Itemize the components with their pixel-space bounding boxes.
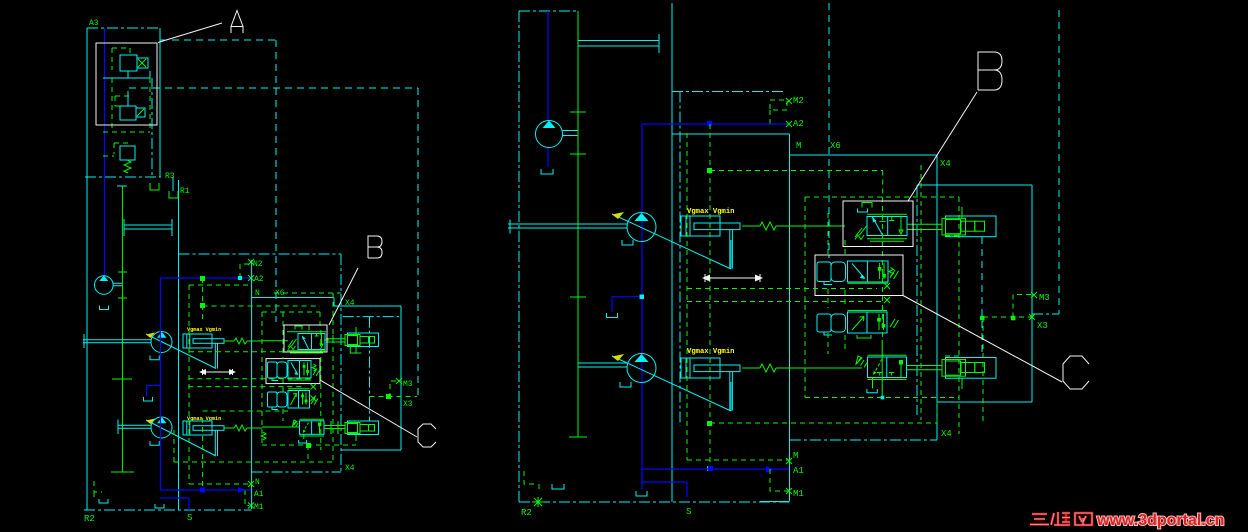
valve block bottom dashdot xyxy=(252,471,341,473)
pump P2r swash arrow xyxy=(612,356,731,411)
wire blue drain mid xyxy=(612,297,642,312)
wire dashed green between rows xyxy=(188,312,310,421)
letter C left xyxy=(418,424,436,447)
svg-text:X3: X3 xyxy=(1037,321,1048,331)
wire block bottom left xyxy=(760,501,790,503)
svg-text:A1: A1 xyxy=(254,490,264,499)
tank bottom left green xyxy=(94,481,102,499)
wire dashdot inner vertical xyxy=(151,78,153,177)
callout box B right xyxy=(843,201,913,247)
wire R3 dashdot horizontal xyxy=(85,176,161,178)
svg-text:M1: M1 xyxy=(254,503,264,512)
wire valve row1 line xyxy=(262,339,345,342)
wire green dashed row links xyxy=(687,213,959,356)
svg-text:A1: A1 xyxy=(793,466,804,476)
tank below pump P1r xyxy=(622,240,633,245)
piston actuator P2 xyxy=(183,421,212,435)
wire below pump P3r xyxy=(547,148,549,167)
valve R1 pilot xyxy=(862,203,872,208)
valve R1 spring xyxy=(855,226,867,240)
valve V6 xyxy=(268,392,278,407)
svg-text:Vgmax Vgmin: Vgmax Vgmin xyxy=(687,348,734,356)
wire dashdot X3 vertical xyxy=(343,317,399,421)
tank below pump P1 xyxy=(150,356,159,360)
big dashed box top xyxy=(160,39,276,41)
valve block step xyxy=(334,298,401,451)
pump P1 swash arrow xyxy=(146,334,218,369)
valve V3 pressure reducing xyxy=(103,143,130,156)
actuator A1 top xyxy=(348,333,379,347)
svg-text:X6: X6 xyxy=(830,141,841,151)
wire blue A1 line xyxy=(642,468,789,470)
port X marks V5 xyxy=(311,384,317,401)
wire dashdot inner right vertical xyxy=(916,185,918,415)
RIGHT-SCHEMATIC xyxy=(508,3,1059,518)
wire top edge xyxy=(87,27,160,29)
svg-text:X3: X3 xyxy=(403,400,413,409)
pump P1r circle xyxy=(627,213,656,242)
shaft pump P1 xyxy=(83,334,151,348)
green dashed inner vertical xyxy=(203,278,333,462)
tank on blue return xyxy=(155,504,164,508)
spring on P2 line xyxy=(224,425,262,431)
svg-text:X4: X4 xyxy=(940,159,951,169)
white stroke arrow P1r xyxy=(705,274,760,282)
letter B left xyxy=(368,236,382,258)
callout box C valve (white) xyxy=(815,255,903,296)
wire valve row4 line xyxy=(262,426,345,429)
accumulator I-beam right xyxy=(578,34,659,53)
wire pilot dashed vertical xyxy=(320,330,322,450)
wire green supply vertical xyxy=(577,11,579,437)
valve R3 xyxy=(817,314,831,332)
svg-text:R2: R2 xyxy=(521,508,532,518)
actuator A2 bottom xyxy=(348,421,379,435)
tank below pump P2 xyxy=(150,441,159,445)
green dashed mid verticals xyxy=(845,165,959,434)
leader C right xyxy=(903,296,1062,383)
wire bottom dashdot xyxy=(84,509,251,511)
valve block outer left edge xyxy=(251,260,253,509)
leader B left xyxy=(329,268,358,325)
svg-text:N2: N2 xyxy=(253,260,263,269)
svg-text:www.3dportal.cn: www.3dportal.cn xyxy=(1096,512,1224,529)
node R2 star xyxy=(532,497,544,507)
leader C left xyxy=(320,380,417,437)
accumulator I-beam xyxy=(124,219,172,236)
pump P2 swash arrow xyxy=(146,420,218,456)
wire left outer vertical xyxy=(86,28,88,510)
svg-text:S: S xyxy=(187,513,192,523)
wire block right vertical xyxy=(936,155,938,440)
letter A xyxy=(231,11,243,34)
shaft pump P1r xyxy=(508,220,627,234)
svg-text:A2: A2 xyxy=(793,119,804,129)
svg-text:A2: A2 xyxy=(254,275,264,284)
wire blue supply top xyxy=(547,11,549,121)
big dashed box wide xyxy=(129,88,418,397)
svg-text:X4: X4 xyxy=(345,464,355,473)
svg-text:S: S xyxy=(686,507,691,517)
valve B1 pilot dashes xyxy=(295,326,302,330)
pump P2r circle xyxy=(627,354,656,383)
wire M2 dashdot horizontal xyxy=(672,91,786,93)
spring on P1 line xyxy=(224,338,262,344)
letter B right xyxy=(978,52,1002,90)
big right box xyxy=(917,185,1032,402)
svg-text:M3: M3 xyxy=(403,380,413,389)
port X marks R2 xyxy=(884,283,890,303)
svg-text:Vgmax Vgmin: Vgmax Vgmin xyxy=(687,208,734,216)
wire actuator link vertical xyxy=(981,237,983,356)
valve R4 xyxy=(868,357,907,378)
wire column right edge lower xyxy=(178,180,180,510)
tank below valve V7 xyxy=(303,434,305,439)
wire left outer dashdot vertical xyxy=(518,11,520,502)
leader A xyxy=(158,23,222,43)
valve block inner dashdot vertical xyxy=(340,254,342,472)
actuator AC1 xyxy=(946,216,997,237)
wire blue tank return xyxy=(160,498,189,510)
valve block top edge xyxy=(252,297,334,299)
wire row4 to actuator xyxy=(907,366,943,370)
leader B right xyxy=(908,92,977,201)
svg-text:N: N xyxy=(255,478,260,487)
wire blue A1 bottom xyxy=(160,489,251,491)
tank below pump P3r xyxy=(541,169,553,174)
wire blue vertical main xyxy=(159,278,161,490)
svg-text:R2: R2 xyxy=(84,514,95,524)
wire dashed link A xyxy=(103,78,150,132)
svg-text:M2: M2 xyxy=(793,96,804,106)
pump P3r circle xyxy=(536,121,563,148)
wire blue A2 horizontal xyxy=(160,277,251,279)
wire pump P3r stubs xyxy=(562,131,578,136)
wire bottom dashdot xyxy=(519,501,790,503)
actuator AC2 xyxy=(946,358,997,379)
svg-text:M3: M3 xyxy=(1039,293,1050,303)
svg-text:X4: X4 xyxy=(941,429,952,439)
svg-text:M1: M1 xyxy=(793,489,804,499)
valve R1 (B valve) rect xyxy=(867,217,907,236)
wire blue A2 line xyxy=(642,123,789,125)
svg-text:M: M xyxy=(793,451,798,461)
tank below pump P3 xyxy=(100,306,109,310)
valve V2 (in A box) xyxy=(115,96,129,106)
shaft pump P2r xyxy=(578,363,627,367)
green dashed bottom lines xyxy=(174,418,356,488)
green big dashed box xyxy=(710,124,937,469)
wire block left inner vertical xyxy=(789,134,791,501)
svg-text:A3: A3 xyxy=(89,19,99,28)
piston actuator P1 xyxy=(183,334,212,348)
spring on P1r line xyxy=(742,222,845,230)
callout box B left xyxy=(284,325,327,352)
spring below V3 xyxy=(124,160,131,173)
callout box A xyxy=(96,43,157,125)
LEFT-SCHEMATIC xyxy=(83,19,418,524)
wire pump P3 stubs xyxy=(113,283,123,286)
wire blue pilot vertical xyxy=(104,28,106,277)
wire green dashed X3 drop xyxy=(982,317,984,423)
svg-text:Vgmax Vgmin: Vgmax Vgmin xyxy=(187,327,221,333)
pump P3 (aux) circle xyxy=(95,276,114,295)
wire column right edge upper xyxy=(159,28,161,177)
valve V5 proportional xyxy=(268,362,278,378)
svg-text:N: N xyxy=(255,289,260,298)
wire outer box left solid xyxy=(671,3,673,502)
piston actuator P1r xyxy=(681,216,720,236)
wire inner dashdot vertical xyxy=(679,92,681,427)
callout box C valve left (white) xyxy=(266,359,320,384)
shaft pump P2 xyxy=(118,420,151,435)
svg-text:X4: X4 xyxy=(345,299,355,308)
wire block top right xyxy=(790,154,938,156)
spring on P2r line xyxy=(742,364,862,372)
valve V7 bottom xyxy=(300,421,325,435)
tank bottom left green xyxy=(524,471,539,489)
pump P1r swash arrow xyxy=(612,214,731,269)
wire X6 dashed vertical xyxy=(275,40,277,322)
wire blue tank return right xyxy=(642,469,687,497)
green box left big xyxy=(189,285,341,484)
wire blue main vertical xyxy=(641,124,643,489)
tank on blue return right xyxy=(636,491,647,496)
svg-text:M: M xyxy=(796,141,801,151)
svg-text:R1: R1 xyxy=(180,187,190,196)
green dashed box around valves xyxy=(262,312,320,445)
wire block bottom dashdot xyxy=(790,439,937,441)
white stroke arrow P1 xyxy=(203,369,233,375)
valve B1 main rect xyxy=(298,334,325,350)
wire block top left xyxy=(672,133,790,135)
wire green M1 connector xyxy=(770,469,789,491)
wire X6 dashed vertical xyxy=(828,3,830,258)
green inner dashed box xyxy=(805,197,959,398)
pump P2 main circle xyxy=(151,417,172,438)
wire far right dashed vertical xyxy=(1058,10,1060,314)
pump P1 main circle xyxy=(151,332,172,353)
piston actuator P2r xyxy=(681,358,720,378)
wire M2 dashed connector xyxy=(240,264,249,278)
wire M1 connector left xyxy=(245,490,249,506)
valve B1 spring xyxy=(288,339,297,350)
tank below pump P2r xyxy=(620,382,631,387)
valve V1 relief (in A box) xyxy=(112,48,130,70)
wire M3 dashdot horizontal xyxy=(1032,313,1059,315)
wire green M line xyxy=(687,133,789,460)
tank mid blue xyxy=(607,313,618,318)
WATERMARK xyxy=(1030,512,1224,529)
wire top edge dashdot xyxy=(519,10,578,12)
valve R2 proportional xyxy=(817,262,831,282)
watermark CJK glyphs xyxy=(1030,512,1092,525)
wire blue drain mid left xyxy=(147,385,161,396)
wire row1 to actuator xyxy=(907,224,942,229)
wire mid vertical green xyxy=(121,186,123,472)
letter C right xyxy=(1063,356,1089,389)
wire M2 dashdot xyxy=(179,253,342,255)
tank below valve R4 xyxy=(872,378,874,389)
